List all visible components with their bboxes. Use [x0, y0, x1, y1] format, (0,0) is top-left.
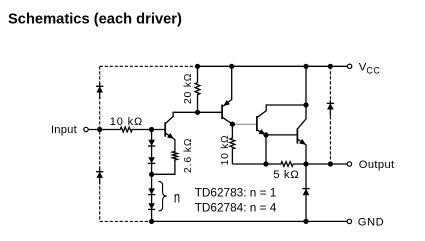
wire VCC rail dashed segment: [100, 65, 198, 67]
svg-text:Input: Input: [51, 124, 78, 136]
transistor Q3 base bar: [256, 116, 258, 131]
wire diode chain vertical: [151, 130, 153, 222]
clamp diode (GND to output): [303, 189, 310, 196]
wire Q3 emitter to Q4 base: [266, 134, 297, 136]
transistor Q4 collector: [298, 105, 306, 129]
diode D4 (chain): [148, 203, 155, 209]
wire Q2 collector to Q3 base (thin): [232, 123, 256, 125]
wire right dashed vertical: [329, 66, 331, 164]
resistor 2.6 kOhm (vertical) with wire to chain node: [152, 139, 178, 174]
wire collector riser to VCC: [305, 66, 307, 105]
svg-text:GND: GND: [358, 216, 385, 228]
wire GND rail dashed segment: [100, 220, 152, 222]
transistor Q2 base bar: [221, 105, 223, 120]
svg-text:10 kΩ: 10 kΩ: [220, 135, 231, 166]
wire GND rail (solid): [152, 220, 348, 222]
transistor Q4 base bar: [296, 128, 298, 143]
svg-text:TD62783: n = 1: TD62783: n = 1: [195, 185, 277, 199]
svg-text:n: n: [174, 189, 180, 206]
terminal Input: [84, 127, 88, 131]
diode D3 (chain): [148, 188, 155, 194]
svg-text:TD62784: n = 4: TD62784: n = 4: [195, 201, 277, 215]
diode on right dashed line: [329, 100, 331, 116]
resistor 20 kOhm (vertical): [195, 66, 200, 112]
svg-text:5 kΩ: 5 kΩ: [273, 169, 299, 181]
terminal VCC: [347, 64, 351, 68]
svg-text:Schematics (each driver): Schematics (each driver): [8, 12, 182, 28]
resistor 10 kOhm (input, horizontal) with wire to Q1 base: [88, 127, 164, 132]
output rail with resistor 5 kOhm: [232, 162, 347, 167]
wire Q3 emitter down to output rail: [265, 135, 267, 164]
transistor Q2 collector: [223, 117, 233, 124]
transistor Q4 emitter: [298, 139, 306, 164]
diode D1 (chain): [148, 140, 155, 146]
transistor Q1 collector: [166, 112, 223, 123]
svg-text:VCC: VCC: [359, 62, 381, 76]
terminal GND: [347, 219, 351, 223]
wire left dashed vertical: [99, 66, 101, 221]
wire VCC rail (solid): [198, 65, 348, 67]
diode on left dashed line (lower): [99, 169, 101, 185]
transistor Q1 emitter: [166, 133, 175, 139]
brace for n diodes: [158, 181, 167, 211]
diode D2 (chain): [148, 157, 155, 163]
svg-text:20 kΩ: 20 kΩ: [183, 73, 194, 104]
svg-text:2.6 kΩ: 2.6 kΩ: [183, 138, 194, 173]
wire output node to GND (clamp diode branch): [305, 164, 307, 221]
diode on left dashed line (upper): [99, 83, 101, 99]
transistor Q1 base bar: [164, 122, 166, 137]
svg-text:Output: Output: [359, 159, 395, 171]
transistor Q3 emitter: [257, 130, 266, 135]
resistor 10 kOhm (vertical) with wire to output rail: [230, 124, 235, 164]
terminal Output: [347, 162, 351, 166]
svg-text:10 kΩ: 10 kΩ: [110, 116, 143, 128]
transistor Q3 collector: [257, 105, 306, 117]
transistor Q2 emitter from VCC: [223, 66, 232, 106]
